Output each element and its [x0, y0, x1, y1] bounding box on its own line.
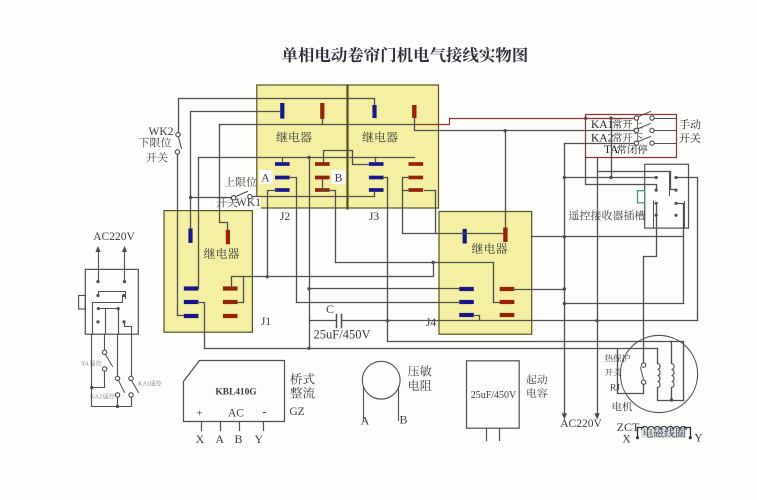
svg-text:B: B — [334, 171, 342, 185]
wire J2 red bar1 link to J3 blue bar1 — [324, 151, 369, 165]
wire AC line N with up arrow — [124, 253, 126, 282]
wire rail1 y=348.2 — [205, 348, 658, 350]
wire J2 blue bar1 stub — [282, 158, 284, 163]
electromagnet coil symbol — [641, 428, 686, 439]
power plug box — [85, 269, 138, 334]
wire J4-edge line y=236.7 to right column — [532, 236, 684, 238]
wire AC220V drop arrows — [562, 413, 567, 419]
label 继电器 (J4) — [472, 243, 507, 254]
wire A-line y=302.6 to J4 blue bar2 — [297, 302, 460, 304]
wire slot row1R down right column to cap line — [677, 178, 698, 321]
manual switch frame (maroon) — [586, 115, 677, 158]
title 单相电动卷帘门机电气接线实物图 — [282, 47, 527, 63]
relay J4 contacts — [459, 287, 474, 291]
wire J1 red contacts bus y=276.7 — [232, 263, 434, 289]
switch KA2 manual (常开下) — [639, 124, 651, 129]
svg-text:KBL410G: KBL410G — [215, 388, 257, 398]
wire center drop x=309 to rail1 — [309, 158, 311, 349]
svg-text:C: C — [326, 302, 334, 316]
svg-text:Y: Y — [694, 433, 703, 445]
wire bus drop to J1 contact bar1 — [198, 158, 200, 289]
wire J2 contact B (bar2/bar3) drop — [323, 180, 336, 263]
svg-text:A: A — [361, 414, 370, 428]
svg-text:J2: J2 — [280, 211, 290, 223]
wire WK2-top to J3 coil(+) : up and across y=98.7 — [179, 99, 375, 133]
wire winding bottoms — [658, 388, 684, 401]
wire rail2 to winding2 — [671, 342, 673, 364]
bridge rectifier KBL410G box — [184, 361, 285, 422]
svg-text:GZ: GZ — [289, 406, 304, 418]
wire J4 red bar1 to TA vertical — [513, 289, 565, 291]
node WK1-left tap — [189, 196, 192, 199]
wire frame corner branch to slot row2R — [598, 172, 676, 190]
wire J4 blue bar3 link to cap line — [474, 316, 480, 321]
relay J3 box — [348, 85, 439, 208]
wire J2 red coil stub — [322, 119, 324, 125]
wire B-line y=262.5 to J4 red bar2 — [336, 263, 500, 303]
label 遥控接收器插槽 — [569, 210, 645, 220]
relay J4 box — [439, 212, 532, 335]
svg-text:X: X — [622, 434, 631, 446]
slot inner outline — [654, 172, 685, 228]
wire J1 blue bar2 to rail1 — [198, 303, 205, 349]
wire rail2 end down to winding bottoms — [683, 342, 685, 401]
svg-text:J4: J4 — [426, 317, 436, 329]
svg-text:B: B — [234, 432, 242, 446]
switch KA1 remote — [131, 335, 133, 377]
node bus center drop — [307, 156, 310, 159]
wire capacitor line y=320.8 — [310, 320, 698, 322]
wire TA vertical to right column y=303.6 — [565, 303, 684, 305]
switch TA manual (常闭停) — [639, 137, 651, 142]
svg-text:A: A — [215, 432, 224, 446]
relay J1 box — [164, 211, 252, 333]
svg-text:Y: Y — [254, 432, 263, 446]
label 开关WK1 — [215, 196, 261, 209]
wire KA1 bottom — [131, 398, 133, 407]
wire thermal bottom to rail1 — [618, 349, 644, 394]
svg-text:X: X — [196, 432, 205, 446]
relay J2 coil pins — [280, 103, 284, 119]
arrow up L — [95, 246, 100, 252]
svg-text:TA: TA — [81, 361, 89, 368]
svg-text:KA2: KA2 — [591, 132, 614, 144]
label 手动 开关 — [679, 119, 700, 129]
wire WK1 left terminal to tap — [191, 197, 232, 199]
label 热保护 开关 RJ — [605, 354, 630, 362]
slot side notch — [638, 191, 645, 203]
wire J2 bar3 drop to bus y=276.7 — [268, 191, 277, 277]
svg-text:-: - — [262, 404, 266, 419]
plug side tab — [79, 296, 86, 310]
relay J3 coil pins — [372, 105, 376, 118]
thermal protection switch RJ — [641, 368, 644, 380]
wire slot row3R down to y=303.6 corner — [676, 204, 684, 304]
wire TA bottom to left rail — [92, 372, 105, 388]
relay J2 contacts — [275, 162, 290, 166]
wire coil bus y=124 (J2 red coil, J3 red coil) — [220, 124, 415, 126]
node slot row1 feed — [563, 176, 566, 179]
wire J3 red coil to KA2 — [415, 119, 635, 131]
node KA1-slot tie top — [609, 117, 612, 120]
label 继电器 (J2) — [276, 131, 311, 142]
svg-text:A: A — [261, 171, 270, 185]
plug internal wiring — [99, 292, 126, 299]
wire frame to AC220V drop — [597, 158, 599, 416]
varistor 压敏电阻 circle — [362, 361, 400, 399]
switch TA remote — [104, 335, 106, 351]
label 继电器 (J1) — [204, 248, 239, 259]
node KA2/J4 tap — [503, 129, 506, 132]
wire KA1-slot tie — [611, 119, 613, 178]
relay J2/J3 divider — [346, 86, 348, 209]
wire KA2 tap down to J4 red coil — [505, 131, 507, 228]
svg-text:WK2: WK2 — [149, 126, 174, 138]
motor circle 电机 — [620, 335, 697, 412]
wire left rail down — [92, 335, 132, 407]
switch KA2 remote — [117, 335, 119, 377]
svg-text:AC220V: AC220V — [560, 418, 602, 430]
node rail1 x=309 — [307, 347, 310, 350]
svg-text:ZCT: ZCT — [617, 420, 640, 434]
start capacitor box 25uF/450V — [467, 361, 520, 428]
switch WK1 (upper limit) — [236, 192, 248, 197]
wire TA-switch drop (to AC220V / taps) — [564, 144, 566, 416]
wire J3 red bar3 right elbow down to J4 feed — [425, 191, 436, 234]
svg-text:+: + — [196, 408, 202, 420]
wire KA2 bottom — [117, 398, 119, 407]
arrow up N — [122, 246, 127, 252]
switch common stubs — [655, 119, 677, 144]
label 电磁线圈 — [644, 428, 685, 438]
svg-text:J3: J3 — [369, 211, 379, 223]
svg-text:AC220V: AC220V — [93, 231, 135, 243]
svg-text:25uF/450V: 25uF/450V — [314, 328, 371, 342]
motor winding 1 — [658, 364, 661, 388]
label 电机 — [613, 402, 632, 412]
label 压敏 电阻 — [408, 365, 432, 376]
wire slot row1 feed — [565, 177, 657, 179]
capacitor pins — [487, 429, 500, 441]
svg-text:AC: AC — [228, 408, 244, 420]
label contact B — [332, 170, 346, 184]
wire J1 red bar2 link — [238, 277, 244, 303]
wire rail2 y=341.5 — [388, 341, 684, 343]
motor winding 2 — [672, 364, 675, 388]
svg-text:KA1: KA1 — [138, 381, 150, 388]
label contact A — [260, 170, 273, 184]
relay J4 coil pins — [463, 229, 467, 244]
slot pins — [655, 176, 658, 179]
label 起动 电容 — [526, 374, 547, 384]
plug pins (dots) — [96, 280, 99, 283]
wire J2 contact A (bar2) drop — [290, 178, 297, 303]
svg-text:25uF/450V: 25uF/450V — [471, 390, 517, 401]
svg-text:RJ: RJ — [610, 384, 620, 394]
relay J1 coil pins — [188, 228, 192, 243]
wire AC line L with up arrow — [98, 253, 100, 282]
wire J3 contact bar2 drop to capacitor node — [384, 178, 388, 342]
node cap-AC220V junction — [595, 319, 598, 322]
wire center-drop branch y=288.8 to J4 blue bar1 — [310, 288, 460, 290]
wire WK2-bottom down to J1 contact bar3 — [178, 155, 184, 316]
relay J3 contacts — [369, 162, 384, 166]
capacitor C 25uF/450V — [337, 315, 342, 328]
switch KA1 manual (常开上) — [639, 112, 651, 117]
relay J2 box — [257, 85, 348, 208]
wire common bus y=157.5 — [199, 157, 415, 159]
wire bus-to-J1 red coil — [220, 125, 228, 230]
label 上限位 — [224, 177, 256, 187]
wire WK1 right terminal to J3 contact bar3 — [253, 193, 375, 197]
relay J1 contacts — [184, 286, 199, 290]
node TA y=236.7 tap — [563, 235, 566, 238]
wire KA1 feed (maroon) — [415, 119, 635, 125]
label 继电器 (J3) — [362, 131, 397, 142]
wire manual common to slot row2 — [586, 158, 657, 191]
wire J2 coil(+) to J1 coil(+) vertical x=190.6 — [191, 112, 281, 229]
switch WK2 (lower limit) — [179, 138, 182, 149]
rectifier pins — [202, 422, 264, 431]
wire slot row3L down to thermal feed — [644, 204, 657, 257]
node cap-J3 junction — [386, 319, 389, 322]
wire J3 red contacts to J4 coil feed — [403, 178, 504, 234]
varistor legs — [364, 387, 399, 421]
svg-text:B: B — [399, 413, 407, 427]
wire TA feed — [565, 143, 635, 145]
remote receiver slot box — [645, 164, 689, 228]
svg-text:KA1: KA1 — [591, 119, 614, 131]
svg-text:J1: J1 — [261, 316, 271, 328]
label 桥式整流 GZ — [290, 373, 314, 385]
wire rail1 to winding1 — [657, 349, 659, 364]
wire J3 blue bar1 stub — [375, 158, 377, 163]
wire thermal feed down — [643, 257, 645, 363]
